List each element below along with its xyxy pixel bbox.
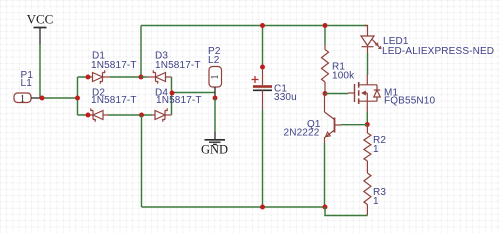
svg-text:100k: 100k [332, 71, 355, 82]
svg-text:1N5817-T: 1N5817-T [91, 95, 137, 106]
wire R2 to R3 [366, 161, 368, 173]
wire bottom jog [325, 207, 367, 216]
wire gate [325, 93, 348, 95]
svg-text:1N5817-T: 1N5817-T [91, 60, 137, 71]
wire bridge left column [78, 77, 89, 115]
node row1 mid [139, 75, 144, 80]
svg-text:1: 1 [20, 94, 25, 105]
node source junction [365, 122, 370, 127]
svg-text:GND: GND [201, 143, 228, 157]
wire D1 to mid column [110, 76, 141, 78]
wire row1 mid to D3 [141, 76, 148, 78]
svg-text:L2: L2 [208, 55, 220, 66]
diode D1 [88, 51, 137, 84]
wire row2 mid down to bottom rail [141, 115, 143, 207]
LED1 [361, 26, 494, 58]
svg-text:VCC: VCC [27, 12, 54, 27]
diode D4 [152, 88, 202, 122]
svg-text:1: 1 [373, 196, 379, 207]
node left column T [75, 96, 80, 101]
node row2 mid [139, 113, 144, 118]
resistor R1 [322, 45, 356, 94]
wire source down [366, 112, 368, 125]
svg-text:LED-ALIEXPRESS-NED: LED-ALIEXPRESS-NED [382, 46, 494, 57]
resistor R2 [364, 125, 386, 161]
VCC supply symbol [27, 12, 54, 45]
node D1 anode [86, 75, 91, 80]
wire top rail drop to bridge row1 [140, 26, 142, 78]
node R1 top rail [323, 23, 328, 28]
wire C1 to bottom rail [262, 110, 264, 207]
connector P2 [208, 46, 222, 98]
node R1 bottom junction [323, 91, 328, 96]
node C1 top rail [260, 23, 265, 28]
svg-text:1N5817-T: 1N5817-T [156, 95, 202, 106]
node C1 pin [260, 65, 265, 70]
svg-text:FQB55N10: FQB55N10 [384, 96, 436, 107]
wire P2 down to GND [214, 98, 216, 132]
wire bridge right column [171, 77, 173, 115]
diode D2 [88, 88, 137, 122]
wire right column to P2 [172, 92, 216, 94]
ground [201, 132, 228, 157]
wire P1 to bridge left column [42, 97, 78, 99]
node D2 cathode [86, 113, 91, 118]
wire LED to drain [367, 53, 369, 75]
node emitter bottom rail [323, 205, 328, 210]
svg-text:1: 1 [210, 75, 221, 80]
wire Q1 emitter down [324, 143, 326, 207]
svg-text:1N5817-T: 1N5817-T [155, 60, 201, 71]
diode D3 [148, 51, 201, 84]
node P2 pin [213, 96, 218, 101]
wire Q1 base [341, 124, 367, 126]
wire D2 to mid column [108, 114, 152, 116]
connector P1 [14, 70, 42, 105]
svg-text:330u: 330u [274, 92, 297, 103]
node P1 junction [40, 96, 45, 101]
transistor Q1 [284, 94, 342, 144]
svg-text:1: 1 [373, 144, 379, 155]
wire rail to R1 [324, 26, 326, 46]
node C1 bottom rail [260, 205, 265, 210]
node right column T [170, 91, 175, 96]
resistor R3 [364, 173, 386, 216]
wire VCC to P1 node [39, 44, 41, 98]
svg-text:2N2222: 2N2222 [284, 128, 320, 139]
capacitor C1 [252, 26, 297, 111]
svg-text:L1: L1 [21, 78, 33, 89]
mosfet M1 [348, 75, 436, 112]
wire top rail [141, 25, 368, 27]
wire bottom rail [142, 206, 326, 208]
